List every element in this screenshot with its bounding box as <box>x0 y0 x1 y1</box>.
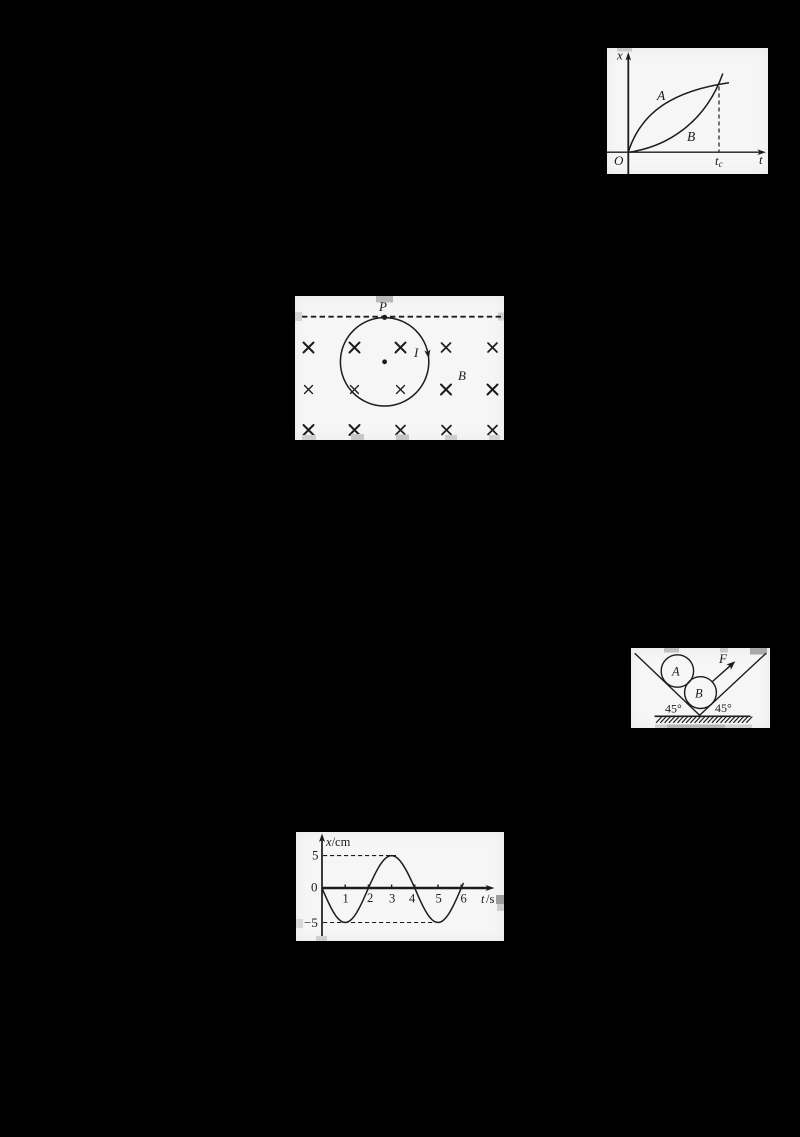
svg-text:t: t <box>759 152 763 167</box>
ball B <box>685 677 717 709</box>
figure 4: x-t sine graph box <box>296 832 504 941</box>
t axis <box>322 887 489 890</box>
left incline <box>635 653 700 715</box>
scan smudge left edge <box>296 919 303 928</box>
svg-text:F: F <box>718 651 728 666</box>
svg-text:B: B <box>687 129 695 144</box>
scan smudge bottom band <box>655 725 667 729</box>
svg-text:4: 4 <box>409 892 416 906</box>
dashed +5 level <box>323 855 396 857</box>
svg-text:−5: −5 <box>304 915 318 930</box>
scan smudges bottom edge <box>302 435 316 440</box>
svg-text:B: B <box>695 687 703 701</box>
scan smudge left edge at dashed line <box>295 312 302 321</box>
dashed boundary line <box>302 316 501 318</box>
ground line <box>655 715 751 717</box>
point P dot <box>382 315 387 320</box>
svg-text:5: 5 <box>436 892 442 906</box>
y axis (x axis of graph variable) <box>607 58 761 174</box>
scan smudges top edge <box>664 648 679 653</box>
t axis arrowhead <box>758 149 767 155</box>
svg-text:t: t <box>481 892 485 906</box>
y axis <box>321 839 323 939</box>
center dot <box>382 359 387 364</box>
scan smudges right edge <box>496 895 504 904</box>
figure 3: balls in V-groove box <box>631 648 770 728</box>
field cross marks <box>304 343 498 436</box>
svg-text:O: O <box>614 153 624 168</box>
ground hatching <box>656 717 752 723</box>
curve A <box>628 83 729 153</box>
svg-text:P: P <box>378 299 387 314</box>
svg-text:x/cm: x/cm <box>325 835 351 849</box>
svg-text:45°: 45° <box>715 701 732 715</box>
svg-text:A: A <box>671 665 680 679</box>
curve B <box>628 74 723 153</box>
current arrow on circle <box>424 349 430 358</box>
scan smudge right edge at dashed line <box>498 313 504 321</box>
scan smudge bottom <box>316 936 327 941</box>
scan smudge above x label <box>617 48 632 52</box>
svg-text:6: 6 <box>461 892 467 906</box>
tick marks <box>345 885 461 889</box>
current loop circle <box>340 318 428 406</box>
figure 2: current loop in magnetic field box <box>295 296 504 440</box>
svg-text:x: x <box>616 48 623 63</box>
force F arrow <box>713 664 733 682</box>
dashed -5 level <box>323 922 435 924</box>
t axis arrowhead <box>486 885 495 891</box>
scan smudge top edge above P <box>376 296 393 303</box>
y axis arrowhead <box>626 52 632 61</box>
svg-text:B: B <box>458 368 466 383</box>
svg-text:3: 3 <box>389 892 395 906</box>
svg-text:tc: tc <box>715 153 723 169</box>
dashed drop line at tc <box>718 87 720 153</box>
svg-text:5: 5 <box>312 848 319 863</box>
svg-text:0: 0 <box>311 880 318 895</box>
ball A <box>661 655 693 687</box>
svg-text:A: A <box>656 88 666 103</box>
sine curve <box>322 856 464 923</box>
svg-text:/s: /s <box>486 892 494 906</box>
y axis arrowhead <box>319 834 325 843</box>
svg-text:I: I <box>413 345 419 360</box>
figure 1: x-t graph box <box>607 48 768 174</box>
svg-text:45°: 45° <box>665 702 682 716</box>
svg-text:1: 1 <box>343 892 349 906</box>
right incline <box>700 653 767 715</box>
svg-text:2: 2 <box>367 891 373 905</box>
